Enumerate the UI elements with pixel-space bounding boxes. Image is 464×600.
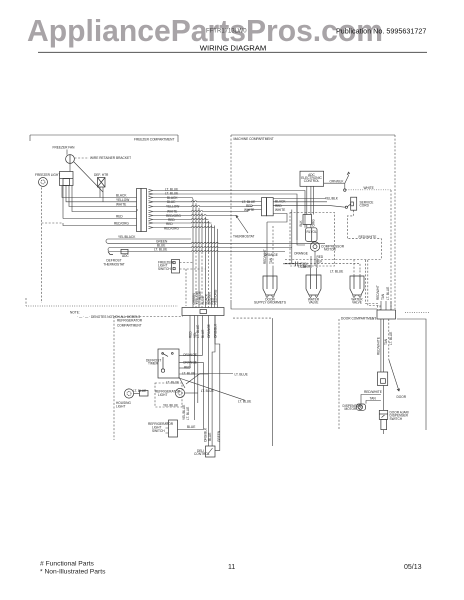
svg-text:LT. BLUE: LT. BLUE xyxy=(196,325,200,338)
svg-text:LIGHT: LIGHT xyxy=(116,404,125,408)
svg-text:ORN/BLK: ORN/BLK xyxy=(330,180,345,184)
svg-text:TAN: TAN xyxy=(269,257,273,264)
svg-text:LT. BLUE: LT. BLUE xyxy=(238,399,251,403)
svg-text:YELLOW: YELLOW xyxy=(116,198,129,202)
svg-text:BLUE: BLUE xyxy=(187,425,195,429)
defrost heater loop xyxy=(106,235,325,252)
ground wire run to deli xyxy=(233,318,272,446)
svg-text:THERMOSTAT: THERMOSTAT xyxy=(103,263,125,267)
svg-text:LT. BLUE: LT. BLUE xyxy=(389,332,393,345)
svg-text:BLUE: BLUE xyxy=(208,433,212,441)
connector chevrons and wire labels xyxy=(149,188,182,231)
refrigerator light xyxy=(155,372,251,420)
control thermostat box xyxy=(146,349,245,400)
svg-text:TIMER: TIMER xyxy=(148,362,159,366)
svg-text:LT. BLUE: LT. BLUE xyxy=(166,381,179,385)
door supply grommets plug xyxy=(254,249,286,305)
footer: functional parts note xyxy=(40,561,95,568)
svg-text:# Functional Parts: # Functional Parts xyxy=(40,561,95,568)
model number text xyxy=(206,29,247,35)
svg-text:Publication No. 5995631727: Publication No. 5995631727 xyxy=(336,27,426,36)
water valve plug 2 xyxy=(350,270,364,305)
svg-text:RED/WHT: RED/WHT xyxy=(376,285,380,300)
svg-text:FREEZER FAN: FREEZER FAN xyxy=(53,146,76,150)
middle connector block J2 xyxy=(182,308,224,316)
svg-text:RED/WHT: RED/WHT xyxy=(263,249,267,264)
svg-text:VALVE: VALVE xyxy=(309,301,319,305)
svg-text:MOTOR: MOTOR xyxy=(345,407,358,411)
svg-text:* Non-Illustrated Parts: * Non-Illustrated Parts xyxy=(40,569,106,576)
freezer fan motor M1 xyxy=(53,146,132,193)
svg-text:TAN: TAN xyxy=(381,293,385,300)
svg-text:ORANGE: ORANGE xyxy=(183,353,197,357)
door wires descending xyxy=(376,319,393,372)
svg-text:RED: RED xyxy=(184,365,191,369)
svg-text:RED: RED xyxy=(317,255,324,259)
svg-text:TAN: TAN xyxy=(370,397,377,401)
svg-text:CORD: CORD xyxy=(360,204,370,208)
svg-text:SUPPLY GROMMETS: SUPPLY GROMMETS xyxy=(254,301,286,305)
red/white dashes to door xyxy=(347,190,391,310)
defrost timer block xyxy=(60,172,74,186)
wires defrost timer to connector xyxy=(62,186,137,226)
svg-text:LT. BLUE: LT. BLUE xyxy=(235,372,248,376)
wires around compressor xyxy=(292,186,316,266)
svg-text:05/13: 05/13 xyxy=(404,564,422,571)
svg-text:REFRIGERATOR: REFRIGERATOR xyxy=(117,319,143,323)
orange label left of compressor xyxy=(264,252,308,258)
svg-text:LT. BLUE: LT. BLUE xyxy=(330,270,343,274)
svg-text:RED: RED xyxy=(166,222,173,226)
svg-text:FREEZER LIGHT: FREEZER LIGHT xyxy=(35,173,60,177)
svg-text:LT. BLUE: LT. BLUE xyxy=(386,287,390,300)
door compartment box xyxy=(339,315,426,430)
svg-text:VALVE: VALVE xyxy=(352,301,362,305)
svg-text:CONTROL: CONTROL xyxy=(304,179,320,183)
wires into valves from adc area xyxy=(267,222,343,274)
defrost thermostat xyxy=(103,249,129,266)
machine compartment box xyxy=(231,135,395,309)
freezer compartment box xyxy=(26,135,178,306)
svg-text:RED/WHITE: RED/WHITE xyxy=(359,235,377,239)
svg-text:YEL/BLK: YEL/BLK xyxy=(325,196,339,200)
svg-text:DOOR: DOOR xyxy=(397,395,407,399)
svg-text:OL: OL xyxy=(313,230,317,234)
defrost limit switch xyxy=(324,172,391,191)
rotated wire labels above middle connector xyxy=(192,289,218,304)
bus from connector to machine compartment xyxy=(153,191,305,308)
svg-text:FFTR1713LW0: FFTR1713LW0 xyxy=(206,29,247,35)
svg-text:DEF. HTR: DEF. HTR xyxy=(94,173,109,177)
housing light xyxy=(116,389,148,409)
compressor relay and overload xyxy=(283,213,381,271)
svg-text:CONTROL: CONTROL xyxy=(194,452,210,456)
svg-text:ADC: ADC xyxy=(122,254,129,258)
svg-text:LT. BLUE: LT. BLUE xyxy=(154,248,167,252)
svg-text:RED/WHITE: RED/WHITE xyxy=(364,390,382,394)
thermostat arrow note xyxy=(233,216,255,239)
svg-text:RED/ORG: RED/ORG xyxy=(114,222,129,226)
svg-text:WIRE RETAINER BRACKET: WIRE RETAINER BRACKET xyxy=(90,156,131,160)
door connector J4 xyxy=(376,285,429,319)
svg-text:WHITE: WHITE xyxy=(364,186,374,190)
svg-text:RED/ORG: RED/ORG xyxy=(164,227,179,231)
svg-text:11: 11 xyxy=(228,564,235,571)
svg-text:SWITCH: SWITCH xyxy=(158,267,171,271)
svg-text:BLUE: BLUE xyxy=(201,330,205,338)
door ajar housing xyxy=(378,360,407,400)
header rule xyxy=(38,51,427,53)
svg-text:LIGHT: LIGHT xyxy=(158,393,167,397)
svg-text:THERMOSTAT: THERMOSTAT xyxy=(233,235,255,239)
svg-text:LT. BLUE: LT. BLUE xyxy=(133,389,146,393)
svg-text:ORANGE: ORANGE xyxy=(183,360,197,364)
svg-text:RED/ORG: RED/ORG xyxy=(214,289,218,304)
rotated labels below middle connector xyxy=(188,323,217,338)
freezer light switch S1 xyxy=(158,260,206,307)
freezer light L1 xyxy=(35,173,60,187)
svg-text:WHITE: WHITE xyxy=(244,208,254,212)
svg-text:ORANGE: ORANGE xyxy=(207,324,211,338)
svg-text:ORG: ORG xyxy=(312,219,316,227)
refrigerator compartment box xyxy=(114,317,183,441)
wires below middle connector into refrigerator compartment xyxy=(190,316,220,451)
watermark AppliancePartsPros.com xyxy=(27,15,383,48)
svg-text:ORANGE: ORANGE xyxy=(294,252,308,256)
svg-text:WIRING DIAGRAM: WIRING DIAGRAM xyxy=(200,43,267,52)
freezer connector J1 xyxy=(137,189,147,232)
svg-text:SWITCH: SWITCH xyxy=(152,429,165,433)
svg-text:COMPARTMENT: COMPARTMENT xyxy=(117,324,142,328)
footer: page number 11 xyxy=(228,564,235,571)
svg-text:· — · — · DENOTES NOT ON ALL M: · — · — · DENOTES NOT ON ALL MODELS xyxy=(77,315,140,319)
svg-text:LT. BLUE: LT. BLUE xyxy=(186,407,190,420)
svg-text:ORG/BLK: ORG/BLK xyxy=(213,323,217,338)
deli control xyxy=(194,427,221,457)
dispenser motor xyxy=(343,390,382,411)
machine connector J3 xyxy=(242,198,328,240)
svg-text:RED: RED xyxy=(188,331,192,338)
svg-text:LT. BLUE: LT. BLUE xyxy=(298,265,311,269)
svg-text:FREEZER COMPARTMENT: FREEZER COMPARTMENT xyxy=(134,137,174,141)
footer: non-illustrated note xyxy=(40,569,106,576)
svg-text:MACHINE COMPARTMENT: MACHINE COMPARTMENT xyxy=(234,137,274,141)
wire freezer light drop xyxy=(42,186,137,304)
svg-text:WHITE: WHITE xyxy=(116,203,126,207)
svg-text:LT. BLUE: LT. BLUE xyxy=(182,372,195,376)
publication number xyxy=(336,27,426,36)
title WIRING DIAGRAM xyxy=(200,43,267,52)
svg-text:YEL/BLUE: YEL/BLUE xyxy=(163,404,178,408)
ADC electronic control board xyxy=(300,171,324,186)
footer: date 05/13 xyxy=(404,564,422,571)
svg-text:TAN: TAN xyxy=(384,338,388,345)
svg-text:BLK: BLK xyxy=(299,220,303,227)
svg-text:DOOR COMPARTMENT: DOOR COMPARTMENT xyxy=(341,316,376,320)
svg-text:RED: RED xyxy=(116,215,123,219)
service cord xyxy=(325,186,374,210)
svg-text:ORG/BLK: ORG/BLK xyxy=(203,427,207,442)
water valve plug 1 xyxy=(306,268,321,305)
svg-text:YEL/BLACK: YEL/BLACK xyxy=(118,235,136,239)
svg-text:RED/WHITE: RED/WHITE xyxy=(376,337,380,355)
svg-text:GREEN: GREEN xyxy=(217,430,221,442)
svg-text:LT. BLUE: LT. BLUE xyxy=(201,389,214,393)
svg-text:SWITCH: SWITCH xyxy=(390,417,403,421)
door ajar dispenser switch xyxy=(379,386,409,435)
svg-text:WHITE: WHITE xyxy=(275,208,285,212)
refrigerator light switch xyxy=(148,420,204,437)
note: denotes not on all models xyxy=(70,311,140,319)
wire fan top feed xyxy=(67,150,109,202)
